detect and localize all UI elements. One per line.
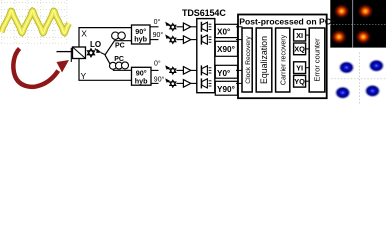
wire Y path	[79, 59, 132, 81]
svg-text:Equalization: Equalization	[259, 36, 269, 84]
svg-text:hyb: hyb	[135, 76, 148, 85]
scope output label box X90°	[215, 41, 237, 56]
svg-text:X90°: X90°	[217, 45, 235, 54]
wire YI to error counter	[306, 67, 310, 69]
svg-text:Y: Y	[81, 71, 87, 81]
svg-text:X0°: X0°	[217, 27, 230, 36]
wire hybrid output stub row 1	[150, 26, 159, 28]
input stubs into post box	[236, 27, 243, 84]
wire hybrid output stub row 3	[151, 69, 159, 71]
photodiode pair (balanced detector) row 3	[165, 65, 176, 74]
post-processing box	[238, 15, 327, 99]
svg-text:0°: 0°	[154, 18, 161, 26]
svg-text:hyb: hyb	[134, 35, 147, 44]
wire hybrid output stub row 2	[150, 39, 159, 41]
constellation X polarization (dark)	[330, 0, 386, 48]
svg-text:XQ: XQ	[294, 45, 305, 54]
wire amp to scope row 3	[191, 69, 197, 71]
equalization block	[256, 28, 272, 92]
carrier recovery block	[276, 28, 290, 92]
wire hybrid output stub row 4	[151, 82, 159, 84]
sampler symbol row 1	[201, 22, 211, 32]
input signal wire	[57, 51, 73, 53]
svg-text:Y90°: Y90°	[217, 85, 235, 94]
LO splitter lower branch wire	[105, 55, 132, 70]
polarization controller PC2 loops	[110, 62, 129, 69]
clock recovery block	[242, 28, 252, 92]
wire amp to scope row 4	[191, 82, 197, 84]
wire pd to amp row 1	[176, 26, 183, 28]
90 degree hybrid 1	[132, 25, 151, 44]
svg-text:YQ: YQ	[294, 77, 305, 86]
error counter block	[309, 28, 325, 92]
LO laser star	[88, 49, 95, 55]
90 degree hybrid 2	[132, 67, 152, 85]
svg-text:TDS6154C: TDS6154C	[182, 8, 226, 18]
amplifier row 3	[183, 67, 190, 75]
wire YQ to error counter	[306, 80, 310, 82]
LO splitter upper branch wire	[105, 41, 132, 55]
scope output label box Y0°	[215, 65, 237, 78]
svg-text:Post-processed on PC: Post-processed on PC	[239, 16, 331, 26]
signal box XQ	[294, 43, 306, 55]
scope output label box Y90°	[215, 81, 237, 95]
photodiode pair (balanced detector) row 2	[165, 34, 176, 43]
svg-text:Y0°: Y0°	[217, 69, 230, 78]
wire pd to amp row 2	[176, 39, 183, 41]
amplifier row 4	[183, 80, 190, 88]
svg-text:LO: LO	[90, 40, 101, 49]
sampler symbol row 2	[201, 35, 211, 45]
wire XQ to error counter	[306, 48, 310, 50]
signal box YI	[294, 62, 306, 74]
sampler symbol row 4	[201, 78, 211, 88]
signal box YQ	[294, 75, 306, 87]
sampler symbol row 3	[201, 65, 211, 75]
polarizer tick	[70, 48, 72, 62]
wire LO to splitter	[101, 53, 106, 55]
amplifier row 2	[183, 36, 190, 44]
polarization beam splitter	[73, 47, 86, 59]
red curved arrow	[13, 49, 69, 87]
wire amp to scope row 2	[191, 39, 197, 41]
svg-text:YI: YI	[296, 64, 303, 73]
oscilloscope TDS6154C box	[197, 19, 215, 93]
polarization controller PC1 loops	[112, 32, 126, 39]
wire pd to amp row 4	[176, 82, 183, 84]
photodiode pair (balanced detector) row 4	[165, 78, 176, 87]
svg-text:X: X	[81, 29, 87, 39]
signal box XI	[294, 29, 306, 41]
wire X path	[79, 28, 132, 47]
LO emission arrow	[95, 49, 102, 53]
svg-text:90°: 90°	[154, 76, 165, 84]
wire amp to scope row 1	[191, 26, 197, 28]
amplifier row 1	[183, 23, 190, 31]
wire pd to amp row 3	[176, 69, 183, 71]
svg-text:Carrier recovery: Carrier recovery	[280, 34, 287, 85]
wire XI to error counter	[306, 34, 310, 36]
photodiode pair (balanced detector) row 1	[165, 22, 176, 31]
constellation Y polarization (light)	[331, 53, 386, 106]
svg-text:0°: 0°	[154, 59, 161, 67]
svg-text:PC: PC	[115, 43, 125, 50]
svg-text:Error counter: Error counter	[313, 38, 322, 82]
scope output label box X0°	[215, 24, 237, 37]
svg-text:Clock Recovery: Clock Recovery	[245, 36, 252, 84]
svg-text:XI: XI	[296, 31, 303, 40]
transmitted waveform photo	[1, 0, 69, 44]
svg-text:90°: 90°	[153, 31, 164, 39]
